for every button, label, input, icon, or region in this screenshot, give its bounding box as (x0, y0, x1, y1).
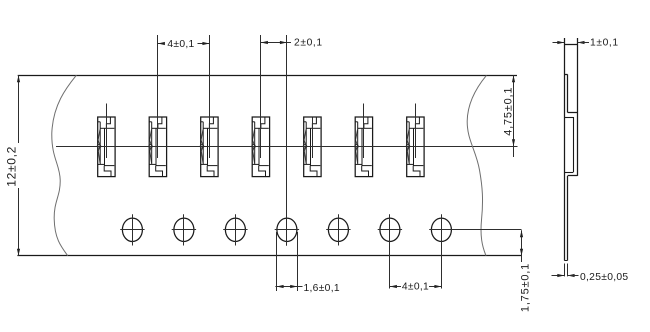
svg-text:4,75±0,1: 4,75±0,1 (502, 87, 514, 136)
svg-text:12±0,2: 12±0,2 (4, 146, 18, 187)
svg-text:2±0,1: 2±0,1 (294, 38, 323, 49)
svg-text:1,6±0,1: 1,6±0,1 (304, 283, 340, 294)
svg-text:0,25±0,05: 0,25±0,05 (580, 272, 628, 283)
svg-text:1,75±0,1: 1,75±0,1 (519, 263, 531, 312)
svg-text:4±0,1: 4±0,1 (402, 281, 429, 292)
svg-text:4±0,1: 4±0,1 (167, 39, 194, 50)
svg-text:1±0,1: 1±0,1 (590, 38, 619, 49)
